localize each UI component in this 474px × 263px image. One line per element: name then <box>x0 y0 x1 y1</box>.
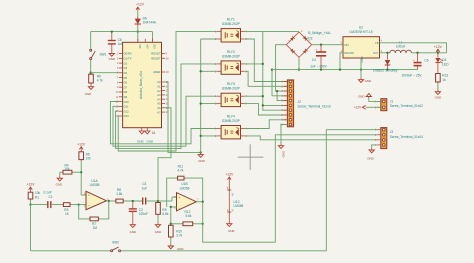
svg-text:D1/TX: D1/TX <box>124 57 132 61</box>
svg-text:220nF: 220nF <box>139 212 148 216</box>
svg-text:C6: C6 <box>424 58 428 62</box>
svg-text:GND: GND <box>281 151 285 157</box>
svg-text:J3: J3 <box>390 130 394 134</box>
wire R4 to gnd <box>60 172 62 176</box>
svg-text:+: + <box>413 58 415 62</box>
power +12V for R5 <box>77 142 86 150</box>
junction inverting node <box>78 203 80 205</box>
wire RLY3 pin4 to bus <box>245 95 263 97</box>
svg-text:+: + <box>88 194 90 198</box>
ground for C8 <box>109 51 115 61</box>
svg-text:D12: D12 <box>124 109 130 113</box>
svg-text:SW2: SW2 <box>112 240 119 244</box>
svg-text:−: − <box>179 206 181 210</box>
wire bridge minus down <box>298 57 300 69</box>
svg-text:G3MB-202P: G3MB-202P <box>222 22 241 26</box>
junction relay common 1 <box>200 70 202 72</box>
svg-text:Schottky: Schottky <box>385 68 398 72</box>
svg-text:D0/RX: D0/RX <box>124 52 132 56</box>
wire U2 onoff to rail <box>340 53 343 70</box>
wire RLY2 pin3 to J2 pin2 <box>245 71 288 86</box>
power +12V top <box>136 3 145 11</box>
svg-text:D11: D11 <box>124 105 129 109</box>
wire bottom rail right <box>121 130 378 251</box>
svg-text:4.7k: 4.7k <box>97 79 103 83</box>
svg-text:D10: D10 <box>124 100 130 104</box>
ground for U2 <box>358 78 371 83</box>
junction C8 top <box>111 30 113 32</box>
junction rail C4 <box>320 68 322 70</box>
wire top rail drop to +5V pin <box>152 32 154 43</box>
wire A6 to filter node <box>158 108 171 201</box>
junction gnd node <box>200 151 202 153</box>
wire R12 right <box>194 223 203 225</box>
svg-text:GND: GND <box>130 230 136 234</box>
wire top rail <box>91 31 153 33</box>
svg-text:D5: D5 <box>124 76 128 80</box>
svg-text:3V3: 3V3 <box>153 44 156 49</box>
svg-text:D4: D4 <box>124 71 128 75</box>
wire R1 to node <box>30 201 32 205</box>
wire zener to node <box>137 27 139 32</box>
junction pin5 branch <box>276 90 278 92</box>
wire U2 out to L1 <box>380 52 390 54</box>
wire left drop to SW1 <box>91 32 93 49</box>
svg-text:GND: GND <box>367 156 373 160</box>
svg-text:LM358: LM358 <box>234 204 244 208</box>
wire D10 to RLY4 input <box>110 102 217 144</box>
ground relay common <box>198 152 205 162</box>
junction SW1/R6/D4 <box>90 72 92 74</box>
svg-text:RLY3: RLY3 <box>227 82 235 86</box>
wire feedback down <box>100 201 109 219</box>
junction bus J2 tap <box>262 104 264 106</box>
wire FB loop <box>380 43 447 53</box>
svg-text:1000uF ~ 25V: 1000uF ~ 25V <box>402 73 423 77</box>
svg-text:V+: V+ <box>231 193 234 197</box>
svg-text:1uF: 1uF <box>142 186 148 190</box>
Arduino Nano module A1 <box>116 39 170 135</box>
power +12V for R1 <box>26 183 35 191</box>
capacitor C4 <box>310 45 327 70</box>
wire AC bus to bridge <box>245 32 288 111</box>
capacitor C3 <box>142 182 158 204</box>
svg-text:V−: V− <box>231 209 234 213</box>
junction led node <box>437 52 439 54</box>
wire U1A out <box>106 200 114 202</box>
svg-text:1M: 1M <box>93 226 98 230</box>
resistor R3 <box>62 203 79 216</box>
wire R1 node down to rail <box>30 205 32 251</box>
crosshair marker <box>238 144 264 170</box>
svg-text:2.7k: 2.7k <box>176 234 182 238</box>
power +12V for U1 <box>225 173 234 181</box>
wire D11 to RLY3 input <box>113 96 217 146</box>
svg-text:D6: D6 <box>124 81 128 85</box>
svg-text:GND: GND <box>109 57 115 61</box>
op-amp U1A <box>84 179 109 210</box>
wire R11 left leg <box>167 178 176 207</box>
ground for R9 <box>155 223 161 235</box>
wire bridge AC2 to J2 pin3 <box>276 45 288 91</box>
wire out loop down <box>203 135 377 242</box>
resistor R8 <box>114 188 124 203</box>
wire bottom rail left <box>31 250 111 252</box>
switch SW1 <box>90 49 107 59</box>
svg-text:GND: GND <box>228 229 234 233</box>
wire psu ground rail <box>272 69 418 71</box>
svg-text:J2: J2 <box>298 100 302 104</box>
svg-text:C1: C1 <box>49 195 53 199</box>
junction R12 left <box>170 223 172 225</box>
svg-text:GND: GND <box>358 94 364 98</box>
svg-text:GND: GND <box>147 140 155 144</box>
wire R11 right leg <box>186 178 203 202</box>
resistor R12 <box>182 222 195 226</box>
wire SW1 to node <box>90 60 92 73</box>
ground for R10 <box>168 244 183 251</box>
svg-text:+12V: +12V <box>136 3 145 7</box>
inductor L1 <box>390 40 412 52</box>
capacitor C8 <box>108 32 123 52</box>
svg-text:G3MB-202P: G3MB-202P <box>222 54 241 58</box>
wire U1B out <box>196 201 202 203</box>
regulator U2 LM2576HVT-15 <box>341 25 383 62</box>
wire RLY3 pin3 to J2 pin8 <box>245 104 288 115</box>
screw terminal J3 <box>375 128 423 149</box>
ground for Arduino pin 29 <box>139 131 144 134</box>
svg-text:D4: D4 <box>442 58 446 62</box>
wire node to R9 and U1B <box>158 197 177 201</box>
resistor R6 <box>89 73 104 85</box>
junction U1B out <box>202 201 204 203</box>
svg-text:R1: R1 <box>35 195 39 199</box>
power +12V into J1 <box>354 105 366 109</box>
svg-text:RESET: RESET <box>151 57 161 61</box>
resistor R7 <box>89 217 100 230</box>
svg-text:−: − <box>88 204 90 208</box>
svg-text:Arduino_Nano_v3.x: Arduino_Nano_v3.x <box>139 71 143 99</box>
resistor R10 <box>169 224 183 239</box>
svg-text:10k: 10k <box>65 167 71 171</box>
svg-text:GND: GND <box>137 140 145 144</box>
junction rail U2gnd <box>360 68 362 70</box>
wire bus tap J2 pin6 <box>263 104 288 106</box>
svg-text:RLY2: RLY2 <box>227 50 235 54</box>
op-amp U1C power pins <box>227 181 244 222</box>
junction rail left <box>271 68 273 70</box>
junction U1A out <box>108 200 110 202</box>
svg-text:1.8k: 1.8k <box>116 192 122 196</box>
junction bus RLY3 <box>262 95 264 97</box>
svg-text:GND: GND <box>177 247 183 251</box>
wire node to VIN pin <box>137 32 139 43</box>
junction R12 right <box>202 223 204 225</box>
svg-text:+12V: +12V <box>77 142 86 146</box>
svg-text:D8: D8 <box>124 90 128 94</box>
wire +12V to zener D6 <box>137 11 139 17</box>
wire R12 left <box>171 223 182 225</box>
resistor R1 <box>28 191 40 201</box>
wire bridge plus to bus <box>263 31 299 33</box>
svg-text:D13: D13 <box>124 114 130 118</box>
relay RLY1 <box>215 18 247 42</box>
wire R8 to C3 <box>125 200 143 202</box>
svg-text:1N4744A: 1N4744A <box>143 21 157 25</box>
junction bus RLY2 <box>262 63 264 65</box>
svg-text:G3MB-202P: G3MB-202P <box>222 119 241 123</box>
svg-text:LED: LED <box>442 62 449 66</box>
switch SW2 <box>111 240 121 251</box>
svg-text:B_Bridge_+AA-: B_Bridge_+AA- <box>308 31 331 35</box>
ground for J3 <box>367 148 374 161</box>
svg-text:LM358: LM358 <box>180 186 190 190</box>
wire J2 pin4 branch <box>272 70 287 96</box>
junction D3 top <box>386 52 388 54</box>
svg-text:D2: D2 <box>308 36 312 40</box>
ground for R4 <box>56 176 63 187</box>
svg-text:1uF ~ 250V: 1uF ~ 250V <box>310 64 327 68</box>
wire A0 to ground line <box>165 82 201 152</box>
wire J2 pin5 branch <box>277 91 287 101</box>
svg-text:GND: GND <box>365 79 371 83</box>
wire relay cathode common <box>201 39 217 152</box>
svg-text:RESET: RESET <box>151 52 161 56</box>
wire R9 to gnd <box>157 216 159 223</box>
wire RLY2 pin4 to bus <box>245 63 263 65</box>
svg-text:1N5822: 1N5822 <box>373 68 384 72</box>
power +12V psu output <box>434 45 443 53</box>
bridge rectifier D2 <box>286 30 331 58</box>
relay RLY2 <box>215 50 247 74</box>
wire J1 pin1 gnd elbow <box>369 98 381 101</box>
resistor R11 <box>176 165 185 181</box>
capacitor C6 <box>402 53 429 78</box>
resistor R5 <box>79 150 91 161</box>
diode D3 1N5822 <box>373 53 398 73</box>
svg-text:+12V: +12V <box>225 173 234 177</box>
svg-text:5.6k: 5.6k <box>186 214 192 218</box>
svg-text:OUT: OUT <box>373 51 379 55</box>
svg-text:100uH: 100uH <box>396 44 406 48</box>
ground for J1 pin1 <box>358 93 371 98</box>
ground for R13 <box>435 90 441 100</box>
svg-text:1k: 1k <box>442 78 446 82</box>
wire RLY4 pin3 to J3 pin3 <box>245 136 378 140</box>
wire L1 to out node <box>411 52 446 54</box>
svg-text:10k: 10k <box>86 157 92 161</box>
wire U2 gnd <box>360 58 362 78</box>
label R12 text <box>185 210 192 218</box>
svg-text:FB: FB <box>375 41 379 45</box>
svg-text:D7: D7 <box>124 85 128 89</box>
wire node to C1 <box>31 204 48 206</box>
svg-text:ON/OFF: ON/OFF <box>344 51 355 55</box>
wire RLY1 pin3 to J2 pin1 <box>245 39 288 82</box>
relay RLY3 <box>215 82 247 106</box>
svg-text:LM358: LM358 <box>90 183 100 187</box>
junction A6 node <box>157 200 159 202</box>
svg-text:RLY4: RLY4 <box>227 115 235 119</box>
junction onoff rail <box>339 68 341 70</box>
svg-text:AREF: AREF <box>153 70 161 74</box>
LED D4 <box>435 53 449 72</box>
svg-text:VIN: VIN <box>344 43 349 47</box>
svg-text:Screw_Terminal_01x04: Screw_Terminal_01x04 <box>390 135 423 139</box>
junction inv node <box>170 206 172 208</box>
svg-text:D2: D2 <box>124 61 128 65</box>
wire to opamp inverting <box>79 204 86 206</box>
ground for Arduino pin 4 <box>145 131 150 134</box>
svg-text:GND: GND <box>56 183 62 187</box>
svg-text:U2: U2 <box>359 25 363 29</box>
resistor R9 <box>156 201 169 216</box>
junction C2 tap <box>132 200 134 202</box>
svg-text:+5V: +5V <box>145 44 148 49</box>
wire R13 to gnd <box>437 84 439 90</box>
svg-text:GND: GND <box>198 159 204 163</box>
svg-text:6.8k: 6.8k <box>162 212 168 216</box>
zener diode D6 <box>135 17 157 27</box>
wire node to pin D4 <box>91 72 119 74</box>
svg-text:GND: GND <box>85 92 91 96</box>
svg-text:~: ~ <box>288 39 290 43</box>
wire U1B inverting <box>171 207 177 224</box>
junction rail D3 <box>386 68 388 70</box>
node VIN junction <box>137 30 139 32</box>
resistor R13 <box>436 72 449 84</box>
svg-text:+12V: +12V <box>26 183 35 187</box>
svg-text:+: + <box>179 196 181 200</box>
relay RLY4 <box>215 115 247 139</box>
capacitor C1 <box>44 191 62 209</box>
screw terminal J2 <box>280 80 331 127</box>
capacitor C2 <box>129 201 148 223</box>
svg-text:Screw_Terminal_01x02: Screw_Terminal_01x02 <box>390 104 423 108</box>
svg-text:RLY1: RLY1 <box>227 18 235 22</box>
svg-text:GND: GND <box>435 95 441 99</box>
op-amp U1B <box>174 182 199 211</box>
svg-text:A7: A7 <box>157 110 161 114</box>
ground for C2 <box>130 223 136 235</box>
svg-text:A1: A1 <box>152 131 156 135</box>
svg-text:+: + <box>316 47 318 51</box>
svg-text:+12V: +12V <box>434 45 443 49</box>
ground for U1C <box>227 222 235 233</box>
junction relay common 2 <box>200 102 202 104</box>
svg-text:C4: C4 <box>312 58 316 62</box>
svg-text:G3MB-202P: G3MB-202P <box>222 87 241 91</box>
svg-text:+: + <box>301 30 303 34</box>
label GND GND under Arduino <box>137 140 154 144</box>
wire D12 to RLY2 input <box>116 64 217 149</box>
svg-text:GND: GND <box>155 230 161 234</box>
junction divider <box>80 171 82 173</box>
ground for J2 <box>278 144 285 158</box>
wire R5 to divider <box>80 161 82 195</box>
junction relay common 3 <box>200 135 202 137</box>
wire J3 pin4 to gnd <box>372 145 377 148</box>
svg-text:Screw_Terminal_01x10: Screw_Terminal_01x10 <box>298 105 331 109</box>
junction C4 top <box>320 44 322 46</box>
wire RLY4 pin4 to J2 pin9 <box>245 120 288 129</box>
svg-text:SW1: SW1 <box>100 53 107 57</box>
wire J1 pin2 to +12V <box>366 106 381 108</box>
svg-text:+12V: +12V <box>354 105 362 109</box>
wire bridge dc out <box>312 44 343 46</box>
svg-text:J1: J1 <box>390 99 394 103</box>
junction R1 node <box>29 203 31 205</box>
svg-text:D9: D9 <box>124 95 128 99</box>
wire divider to noninverting <box>81 194 86 196</box>
wire feedback return <box>79 205 89 219</box>
junction bridge minus rail <box>298 68 300 70</box>
resistor R4 <box>62 163 82 174</box>
junction C6 <box>416 52 418 54</box>
svg-text:VIN: VIN <box>138 44 141 48</box>
svg-text:LM2576HVT-15: LM2576HVT-15 <box>349 30 372 34</box>
svg-text:4.7k: 4.7k <box>177 169 183 173</box>
wire J2 pin10 to ground <box>281 125 287 144</box>
wire D13 to RLY1 input <box>118 32 217 151</box>
ground for R6 <box>85 85 94 96</box>
screw terminal J1 <box>375 99 423 111</box>
wire R10 to gnd <box>170 239 172 244</box>
svg-text:D3: D3 <box>124 66 128 70</box>
